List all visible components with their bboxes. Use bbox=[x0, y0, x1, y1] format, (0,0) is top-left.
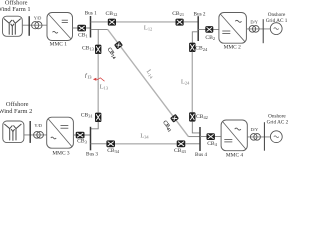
svg-text:CB31: CB31 bbox=[81, 113, 93, 119]
wind farm 1 box bbox=[3, 16, 23, 36]
transformer D/Y (grid 1) bbox=[249, 26, 259, 33]
svg-text:D/Y: D/Y bbox=[250, 19, 258, 24]
wire CB43 to Bus 4 bbox=[185, 143, 200, 145]
node Bus 4 bbox=[199, 127, 201, 151]
svg-text:CB42: CB42 bbox=[196, 114, 208, 120]
transformer Y/D (farm 1) bbox=[32, 22, 42, 29]
wind turbine icons farm 2 bbox=[4, 124, 21, 141]
svg-text:Wind Farm 2: Wind Farm 2 bbox=[0, 108, 32, 115]
breaker CB4 bbox=[207, 133, 215, 140]
grid 1 bar bbox=[262, 19, 264, 43]
wire Bus1 tap to L13/L14 bbox=[91, 28, 108, 30]
svg-text:MMC 3: MMC 3 bbox=[52, 150, 70, 156]
breaker CB41 bbox=[170, 114, 179, 123]
grid 2 bar bbox=[263, 122, 265, 151]
svg-text:Wind Farm 1: Wind Farm 1 bbox=[0, 6, 31, 13]
svg-text:CB24: CB24 bbox=[195, 46, 208, 52]
wire MMC3 to Bus 3 bbox=[73, 134, 90, 136]
svg-text:Bus 4: Bus 4 bbox=[195, 152, 207, 158]
svg-text:Y/D: Y/D bbox=[34, 123, 42, 128]
svg-text:Bus 2: Bus 2 bbox=[194, 11, 206, 17]
breaker CB43 bbox=[177, 140, 186, 147]
line L14 diagonal bbox=[108, 30, 189, 137]
svg-text:CB34: CB34 bbox=[107, 148, 120, 154]
breaker CB2 bbox=[205, 26, 213, 33]
wire Bus 4 to MMC4 bbox=[200, 136, 221, 138]
converter MMC2 bbox=[219, 13, 247, 44]
breaker CB3 bbox=[76, 132, 85, 139]
svg-text:CB21: CB21 bbox=[172, 11, 184, 17]
label Offshore Wind Farm 2 bbox=[0, 101, 32, 115]
breaker CB21 bbox=[176, 19, 184, 26]
svg-text:MMC 4: MMC 4 bbox=[226, 153, 244, 158]
line L24 bbox=[191, 52, 193, 112]
wire Bus 2 to MMC2 bbox=[198, 28, 219, 30]
wire L13 lower elbow to Bus 3 bbox=[91, 122, 99, 129]
source Onshore Grid AC 1 bbox=[270, 23, 282, 35]
node Bus 2 bbox=[197, 16, 199, 41]
svg-text:MMC 1: MMC 1 bbox=[50, 42, 68, 48]
converter MMC3 bbox=[47, 117, 74, 148]
wire Bus2 elbow to L24 bbox=[192, 32, 198, 43]
wire Bus 3 to CB34 bbox=[91, 143, 107, 145]
svg-text:CB2: CB2 bbox=[205, 35, 215, 41]
breaker CB12 bbox=[108, 19, 116, 26]
breaker CB14 bbox=[114, 41, 123, 50]
line L12 bbox=[116, 21, 176, 23]
line L34 bbox=[115, 143, 177, 145]
breaker CB1 bbox=[77, 25, 86, 32]
svg-text:Grid AC 1: Grid AC 1 bbox=[266, 18, 288, 24]
svg-text:CB43: CB43 bbox=[174, 148, 187, 154]
wind farm 2 box bbox=[3, 121, 24, 143]
wire wind farm 2 to MMC3 bbox=[24, 134, 47, 136]
svg-text:CB13: CB13 bbox=[82, 45, 95, 51]
wind turbine icons farm 1 bbox=[4, 19, 21, 35]
label Offshore Wind Farm 1 bbox=[0, 0, 31, 13]
transformer Y/D (farm 2) bbox=[34, 132, 44, 139]
node Bus 3 bbox=[90, 127, 92, 151]
wind farm 2 collector bar bbox=[29, 121, 31, 143]
wire Bus1 to CB12 bbox=[91, 21, 108, 23]
wire CB21 to Bus 2 bbox=[184, 21, 199, 23]
breaker CB42 bbox=[189, 112, 195, 121]
svg-text:CB1: CB1 bbox=[78, 33, 88, 39]
svg-text:Grid AC 2: Grid AC 2 bbox=[267, 120, 289, 126]
svg-text:MMC 2: MMC 2 bbox=[224, 44, 242, 50]
wire wind farm 1 to MMC1 bbox=[22, 24, 47, 26]
breaker CB31 bbox=[95, 113, 101, 122]
breaker CB34 bbox=[106, 140, 115, 147]
svg-text:CB4: CB4 bbox=[207, 141, 217, 147]
wind farm 1 collector bar bbox=[28, 16, 30, 36]
wire MMC1 to Bus 1 bbox=[73, 27, 91, 29]
node Bus 1 bbox=[90, 16, 92, 38]
line L13 bbox=[97, 54, 99, 113]
transformer D/Y (grid 2) bbox=[250, 134, 260, 141]
converter MMC4 bbox=[221, 120, 247, 151]
svg-text:Onshore: Onshore bbox=[268, 113, 286, 119]
svg-text:CB3: CB3 bbox=[77, 139, 87, 145]
svg-text:CB12: CB12 bbox=[106, 11, 118, 17]
svg-text:Bus 1: Bus 1 bbox=[85, 10, 97, 16]
svg-text:D/Y: D/Y bbox=[251, 127, 259, 132]
wire L14 end to Bus 4 bbox=[188, 136, 200, 138]
wire L13 upper stub bbox=[97, 29, 99, 44]
converter MMC1 bbox=[47, 13, 73, 41]
wire MMC2 to grid AC 1 bbox=[246, 28, 270, 30]
wire MMC4 to grid AC 2 bbox=[247, 136, 270, 138]
breaker CB13 bbox=[95, 45, 101, 54]
svg-text:13: 13 bbox=[87, 74, 91, 79]
svg-text:Y/D: Y/D bbox=[34, 15, 42, 20]
fault f13 annotation bbox=[85, 72, 105, 81]
wire L24 elbow to Bus 4 bbox=[192, 121, 200, 132]
svg-text:Bus 3: Bus 3 bbox=[86, 152, 98, 158]
breaker CB24 bbox=[189, 43, 195, 52]
source Onshore Grid AC 2 bbox=[270, 131, 282, 143]
